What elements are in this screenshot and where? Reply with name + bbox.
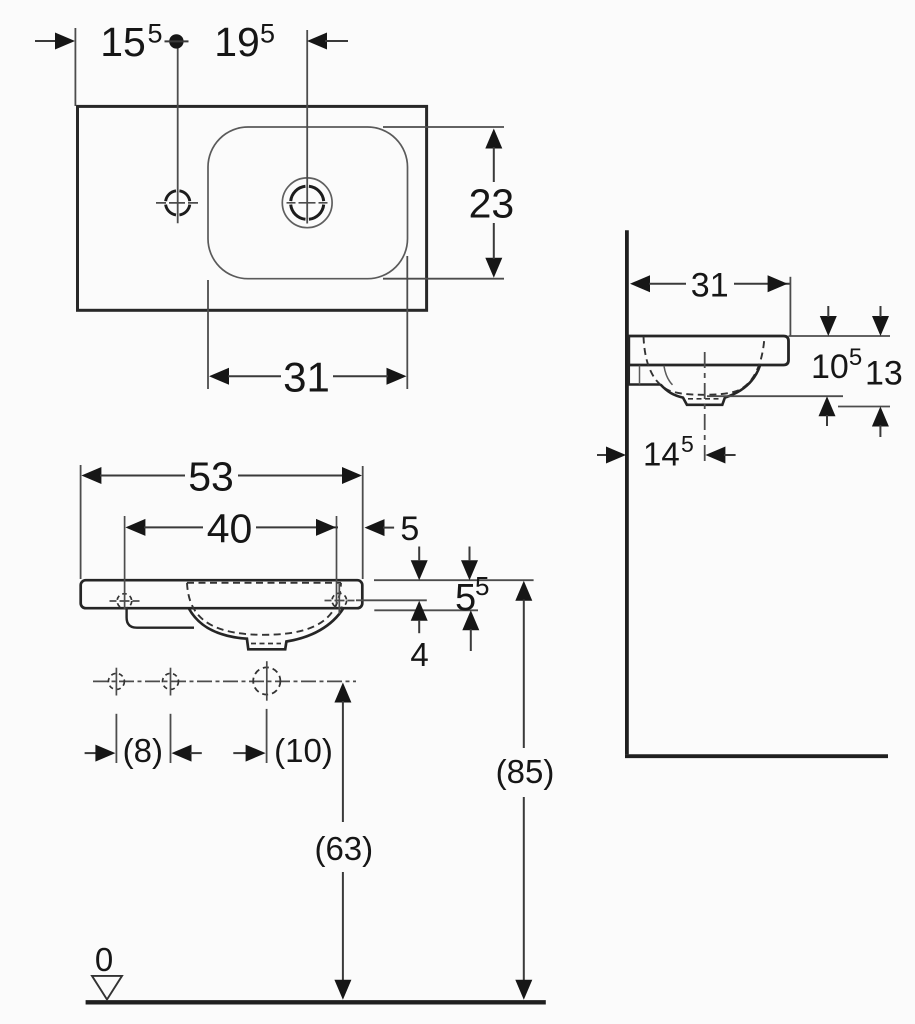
dim 31 extension line right [406,256,408,389]
down arrow for 13 at rim top [872,316,889,336]
dim 14.5 arrow left-pointing at centerline [705,447,725,464]
front rim slab [81,580,363,608]
side dim 31: arrow right [768,275,788,292]
dim 5 arrow left-pointing [365,519,385,536]
dim 40 extension right [336,516,338,604]
dashed drain inner line (front) [251,643,281,645]
down arrow 4 at rim top [411,560,428,580]
dim (8): left tail and arrow [85,752,97,754]
svg-text:105: 105 [811,344,862,386]
anchor symbol 1 [108,673,124,689]
dim 53 arrow right [342,467,362,484]
svg-text:15: 15 [100,19,146,65]
dim 40 extension left (through hole) [124,516,126,609]
svg-text:(63): (63) [314,830,373,867]
dim 23 extension line top [383,126,504,128]
dim 40 arrow right [316,519,336,536]
front body below rim left [127,609,194,628]
down arrow for 10.5 at rim top [820,316,837,336]
arrow right-pointing at x=75 [55,33,75,50]
drain crosshair horizontal [287,202,329,204]
extension line at x=75.4 [74,28,76,106]
datum triangle [92,976,122,1000]
up arrow for 10.5 at drain bottom [819,396,836,416]
svg-text:19: 19 [214,19,260,65]
rim top reference line extended right [789,335,891,337]
svg-text:40: 40 [207,506,253,552]
dim 23 extension line bottom [383,278,504,280]
lower symbols centerline [93,680,356,682]
dashed basin top edge (front) [187,582,341,584]
fixing hole reference line right [356,599,427,601]
svg-text:4: 4 [410,636,428,673]
solid outer bowl and drain (side) [661,366,761,405]
extension line below anchor 2 [170,714,172,763]
svg-text:31: 31 [283,354,330,401]
side dim 31: arrow left at wall [630,275,650,292]
left fixing hole [117,594,132,609]
dim (85) vertical line with arrows [515,581,532,601]
tap hole centerline vertical (from dot) [177,48,179,223]
side dim 31 extension right [789,277,791,336]
left fixing hole crosshair [110,600,140,602]
svg-text:23: 23 [469,181,515,227]
dashed inner bowl arc (front) [187,583,341,635]
drain outer circle [282,178,332,228]
arrow tail [325,40,348,42]
down arrow 5.5 at rim top [461,560,478,580]
dim 14.5 arrow right-pointing at wall [606,447,626,464]
wall bottom horizontal [625,754,888,758]
svg-text:(8): (8) [123,732,163,769]
dashed inner bowl arc (side, hidden) [644,337,765,395]
side rim rectangle [629,336,789,365]
svg-text:31: 31 [691,267,729,305]
side tab below rim [629,365,661,385]
dim 31 extension line left [207,280,209,389]
extension line below drain [266,709,268,763]
svg-text:5: 5 [148,19,163,49]
svg-text:5: 5 [475,571,489,601]
drain bottom reference line [707,395,843,397]
solid bowl silhouette (front) [189,609,343,650]
svg-text:0: 0 [95,941,113,978]
tab inner line [639,366,641,385]
13 lower reference line [838,406,890,408]
dimension 15.5 / 19.5 top line left tail [35,40,57,42]
tap hole symbol [166,191,190,215]
up arrow for 13 [872,407,889,427]
tap hole crosshair horizontal [156,202,198,204]
basin inner rounded rectangle (top view) [208,127,408,279]
arrow left-pointing at x=307 [307,33,327,50]
dim 23 arrow up [485,129,502,149]
up arrow 5.5 at lower line [462,610,479,630]
svg-text:5: 5 [400,510,419,548]
floor line [86,1000,546,1004]
right fixing hole vertical [338,584,340,614]
dim 31 line segments [228,375,281,377]
lower reference line (5.5) [374,609,478,611]
svg-text:(10): (10) [274,732,333,769]
svg-text:14: 14 [643,436,680,473]
dim 53 segments [100,475,185,477]
dashed drain inner line (side) [688,398,721,400]
extension line below anchor 1 [115,714,117,763]
drain centerline vertical [306,30,308,224]
svg-text:(85): (85) [496,753,555,790]
svg-text:5: 5 [455,577,476,619]
dim 40 arrow left [125,519,145,536]
dim 40 segments [144,526,203,528]
dot crosshair [165,40,189,42]
dim 14.5: left tail outside wall [597,454,608,456]
dim 31 arrow left [209,368,229,385]
drain inner thick circle [291,186,324,219]
dim 23 arrow down [485,258,502,278]
washbasin outer rectangle (top view) [78,106,427,310]
dim 53 extension left [80,465,82,579]
wall line vertical [625,230,629,754]
side dim 31 line segments [649,283,686,285]
tab right edge thin curve [664,366,673,385]
drain rough-in dashed circle [253,667,280,694]
anchor symbol 2 [163,673,179,689]
dim 53 extension right [362,466,364,579]
svg-text:13: 13 [865,355,903,393]
svg-text:5: 5 [681,431,694,457]
dim 53 arrow left [81,467,101,484]
svg-text:5: 5 [260,19,275,49]
up arrow 4 at hole line [411,601,428,621]
svg-text:53: 53 [188,454,234,500]
dim (8) right arrow [172,745,192,762]
dim (63) vertical line with arrows [334,683,351,703]
drain rough-in vertical centerline [266,661,268,701]
rim top reference line extended right [374,579,534,581]
right fixing hole [332,593,347,608]
drain centerline (side, dash-dot) [704,352,706,466]
right fixing hole crosshair [325,600,355,602]
dim 23 line segments [493,147,495,182]
dim (10) arrow [233,752,246,754]
origin dot [169,34,183,48]
dim 31 arrow right [387,368,407,385]
